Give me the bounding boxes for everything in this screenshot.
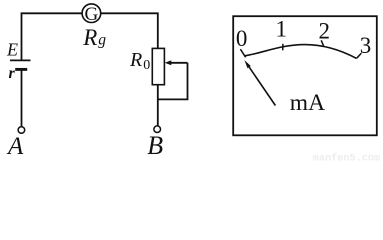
svg-text:r: r (9, 65, 16, 82)
wire from battery positive plate up and right to galvanometer (22, 13, 83, 60)
svg-text:3: 3 (360, 33, 372, 58)
svg-text:0: 0 (143, 58, 150, 73)
wire from battery down to A terminal (21, 69, 23, 126)
svg-text:B: B (147, 131, 163, 160)
meter box (233, 16, 377, 135)
wiper loop wire (158, 63, 188, 100)
svg-text:E: E (6, 39, 18, 59)
battery cell: long plate (10, 59, 31, 61)
svg-text:G: G (85, 4, 99, 25)
svg-text:0: 0 (236, 26, 248, 51)
svg-text:2: 2 (319, 19, 331, 44)
svg-text:1: 1 (275, 17, 287, 42)
meter needle (249, 67, 276, 106)
battery cell: short thick plate (15, 68, 27, 71)
tick 1 (282, 44, 284, 51)
svg-text:manfen5.com: manfen5.com (313, 153, 380, 163)
svg-text:R: R (129, 49, 142, 71)
tick 2 (321, 40, 323, 46)
meter scale arc (245, 45, 357, 59)
wire from galvanometer to top-right corner down to R0 (101, 13, 158, 48)
resistor R0 box (152, 48, 164, 84)
svg-text:A: A (6, 133, 24, 160)
terminal A (18, 127, 25, 134)
svg-text:R: R (82, 25, 97, 50)
galvanometer G (82, 4, 101, 23)
svg-text:g: g (98, 32, 106, 49)
wire from R0 down to B terminal (157, 85, 159, 126)
tick 0 (240, 49, 245, 57)
wiper arrow of rheostat R0 (171, 62, 188, 64)
svg-text:mA: mA (290, 90, 325, 116)
tick 3 (357, 53, 362, 58)
needle arrowhead (244, 60, 250, 68)
terminal B (154, 126, 161, 133)
